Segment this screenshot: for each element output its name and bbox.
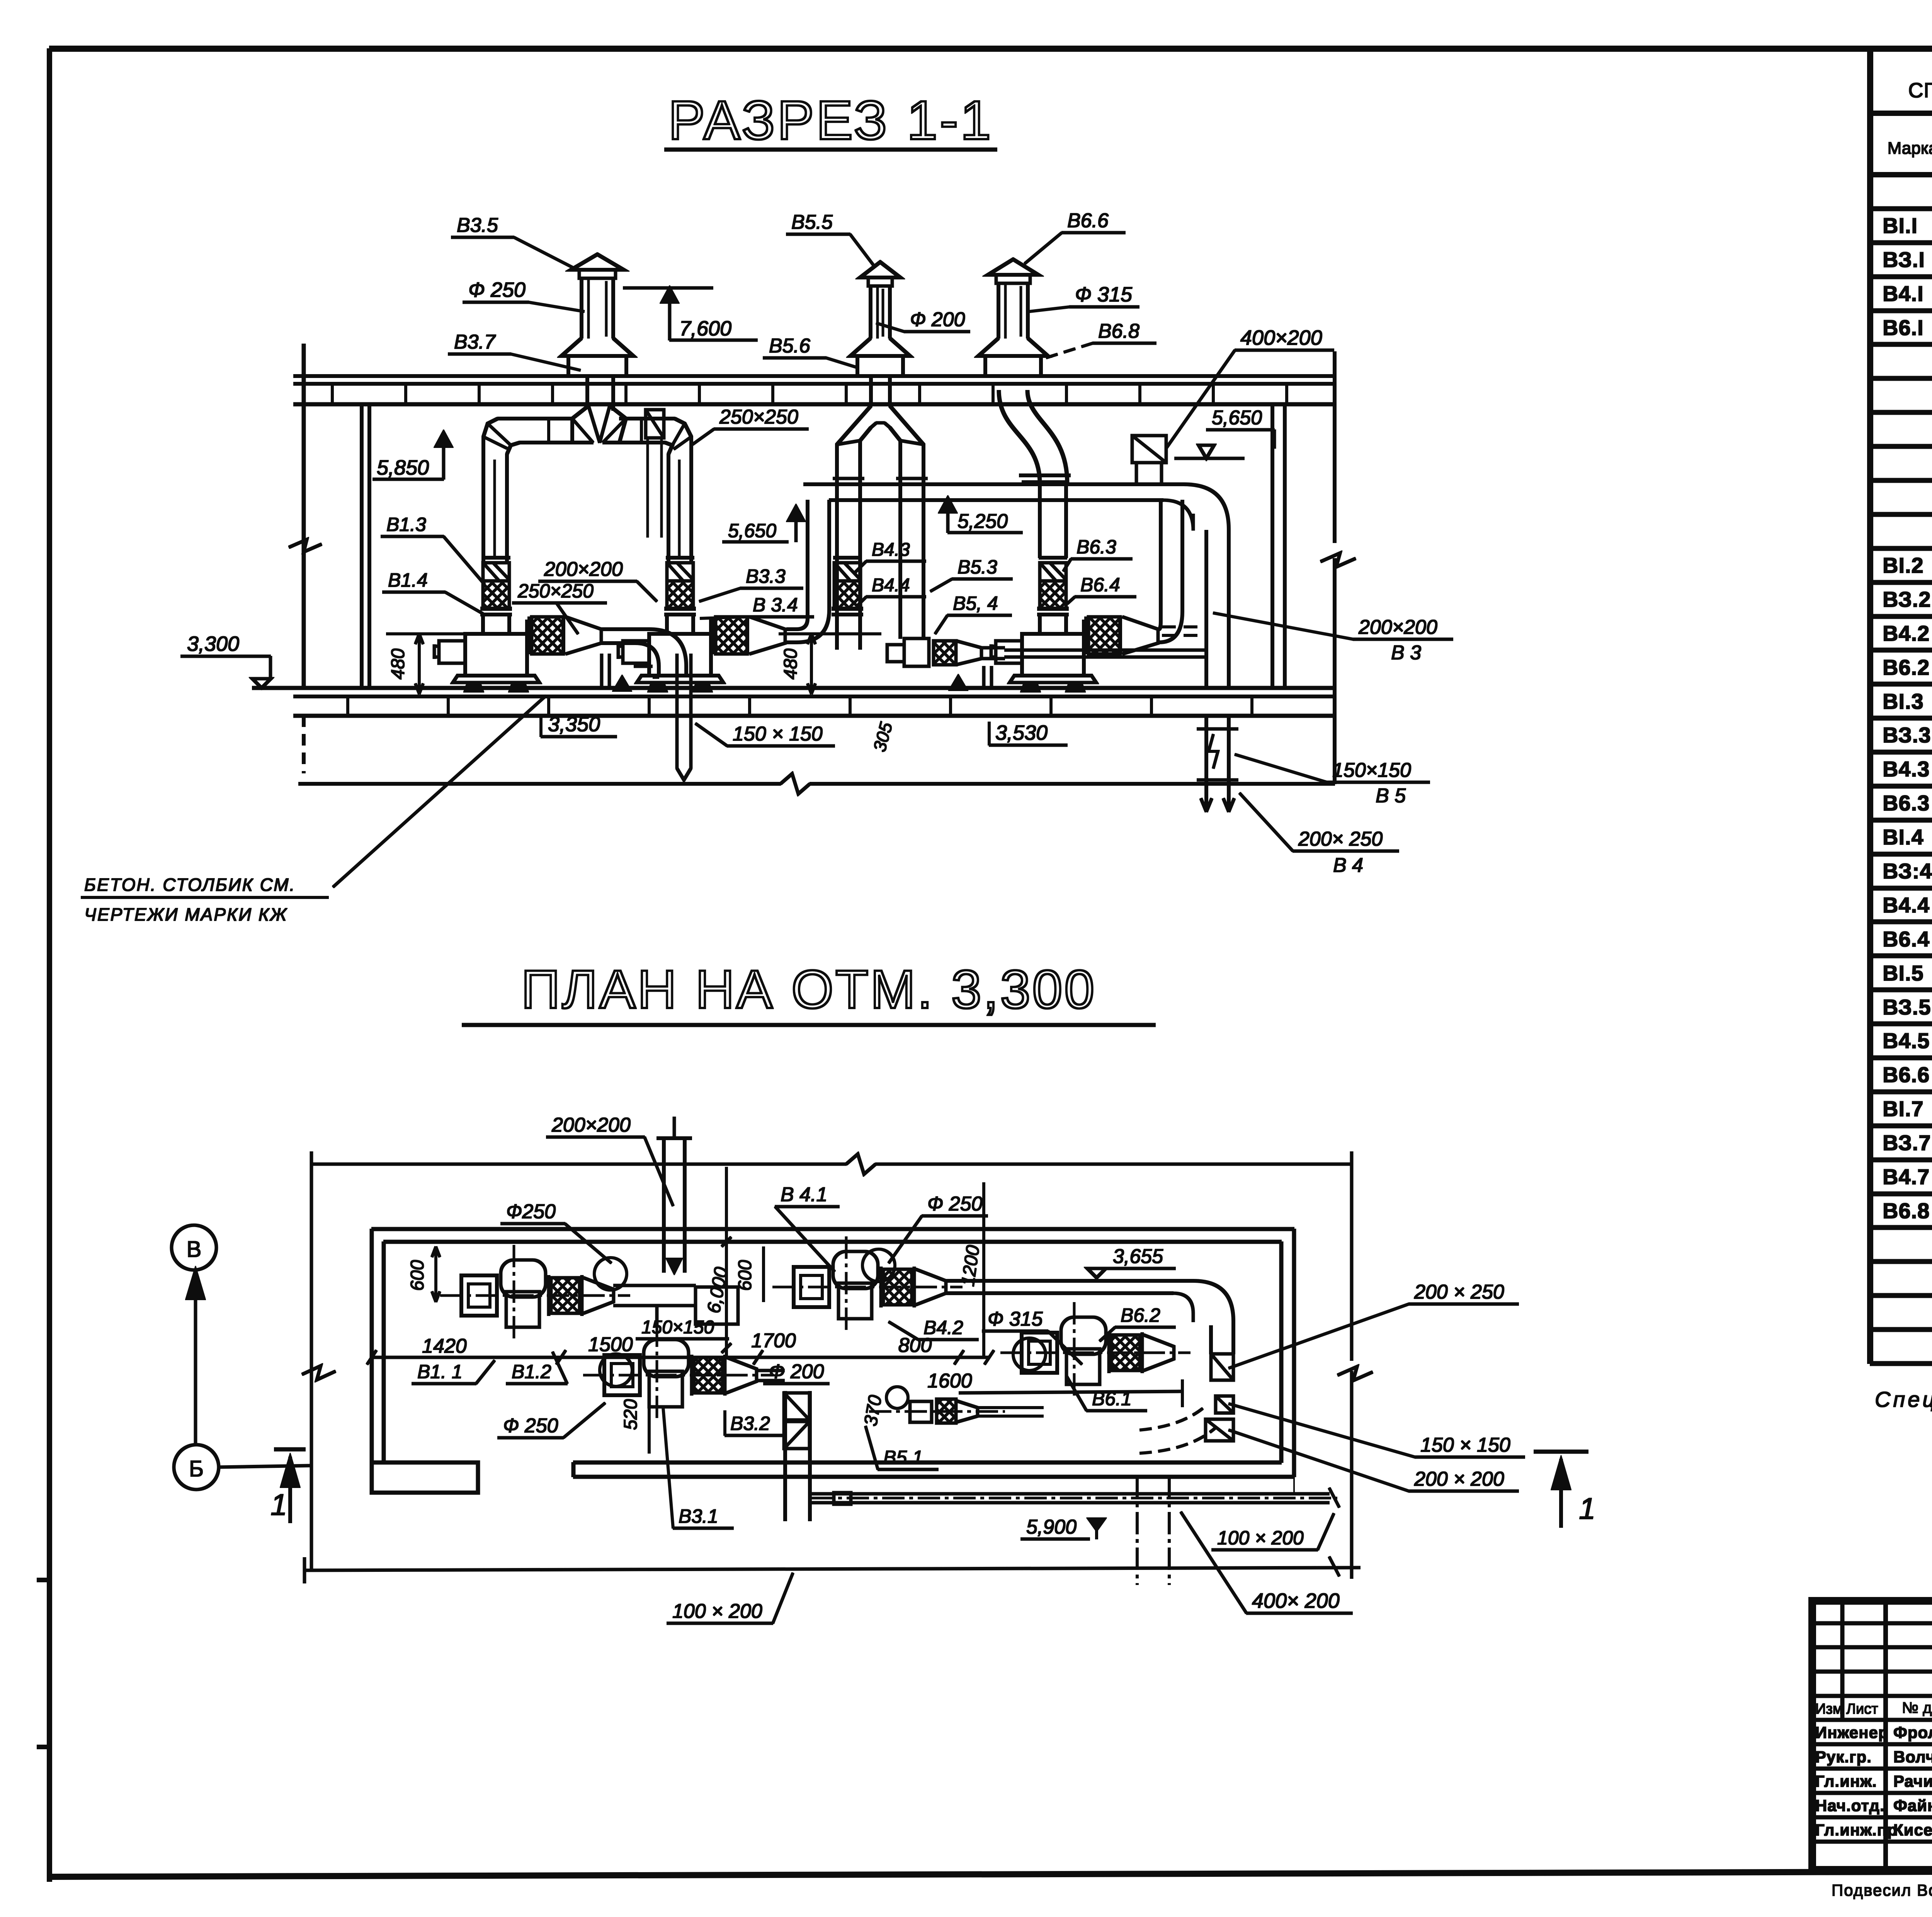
svg-text:200 × 200: 200 × 200: [1414, 1468, 1504, 1490]
svg-text:250×250: 250×250: [719, 406, 798, 428]
svg-text:В6.8: В6.8: [1883, 1199, 1930, 1223]
duct from B5 to right: [978, 1406, 1043, 1409]
support under B5 duct: [983, 666, 985, 688]
plan top dimension line: [311, 1163, 846, 1166]
svg-text:В4.3: В4.3: [872, 540, 910, 560]
plan fan unit B1 (B1.1/B1.2): [461, 1275, 497, 1316]
right wall: [1271, 404, 1274, 688]
left wall break mark: [289, 540, 321, 552]
drop break squiggle: [1209, 734, 1218, 768]
svg-text:В1.2: В1.2: [512, 1361, 551, 1382]
ground line break mark: [781, 774, 810, 794]
plan right dimension line: [1350, 1156, 1353, 1360]
vertical dim line 6000: [725, 1167, 728, 1357]
svg-text:600: 600: [407, 1260, 428, 1291]
svg-text:7,600: 7,600: [679, 317, 731, 340]
svg-text:В3.2: В3.2: [730, 1413, 770, 1434]
plan dim 1600: [959, 1391, 1182, 1393]
svg-text:Файн-Гирш: Файн-Гирш: [1893, 1796, 1932, 1815]
flex insert B1.3 + diaphragm B1.4: [482, 556, 510, 559]
svg-text:Ф 250: Ф 250: [468, 278, 526, 301]
duct 250x250 from B1 cone: [601, 628, 649, 631]
svg-text:ВЗ.7: ВЗ.7: [1883, 1130, 1931, 1155]
B4 drop below floor: [1205, 716, 1208, 812]
svg-text:В6.2: В6.2: [1883, 655, 1930, 679]
svg-text:5,900: 5,900: [1026, 1516, 1077, 1538]
thin duct from B5 to right wall riser: [1005, 649, 1206, 652]
frame top border: [49, 46, 1932, 51]
svg-text:В1. 1: В1. 1: [417, 1361, 463, 1382]
loop right leg: [667, 454, 670, 563]
right edge break mark: [1321, 553, 1355, 567]
svg-text:В 3.4: В 3.4: [753, 594, 798, 616]
svg-text:В 4: В 4: [1333, 854, 1363, 877]
svg-text:ВЗ:4: ВЗ:4: [1883, 859, 1932, 883]
svg-text:ПЛАН НА ОТМ. 3,300: ПЛАН НА ОТМ. 3,300: [521, 959, 1096, 1020]
svg-text:В: В: [187, 1237, 202, 1262]
svg-text:Волчкина: Волчкина: [1893, 1748, 1932, 1766]
svg-text:В4.4: В4.4: [1883, 893, 1930, 917]
svg-text:В4.3: В4.3: [1883, 757, 1930, 781]
axis line B-V: [194, 1270, 197, 1445]
section title underline: [665, 148, 997, 152]
plan fan unit B6 (B6.1/B6.2): [1022, 1333, 1057, 1373]
B4 discharge duct to right: [946, 1279, 1193, 1282]
svg-text:150×150: 150×150: [641, 1317, 714, 1338]
svg-text:В 5: В 5: [1376, 785, 1406, 807]
top right elbow down: [1193, 1281, 1233, 1354]
duct through bottom wall x2060: [784, 1391, 787, 1521]
svg-text:3,655: 3,655: [1113, 1245, 1163, 1268]
bottom-left wall pier: [372, 1462, 478, 1493]
dash verticals below wall 400x200: [1136, 1477, 1138, 1585]
plan outer walls: [372, 1227, 1294, 1231]
elbow down to floor duct B1: [649, 629, 686, 677]
frame bottom border: [49, 1870, 1932, 1877]
fan unit B6.1: [1038, 615, 1041, 634]
plan dimension row 1420/1500/1700/800: [372, 1356, 989, 1359]
axis line from B circle: [219, 1466, 311, 1467]
svg-text:В 4.1: В 4.1: [781, 1183, 827, 1206]
svg-text:BI.3: BI.3: [1883, 689, 1924, 713]
Y branch under stack2: [869, 376, 872, 406]
plan title underline: [462, 1023, 1155, 1027]
wall box 200x200: [1206, 1419, 1233, 1441]
section cut mark 1 right: [1534, 1450, 1588, 1454]
svg-text:3,530: 3,530: [995, 721, 1048, 744]
svg-text:В4.7: В4.7: [1883, 1165, 1930, 1189]
duct through roof stack1: [586, 376, 589, 408]
svg-text:3,300: 3,300: [187, 632, 239, 655]
svg-text:600: 600: [735, 1260, 755, 1291]
svg-text:В6.8: В6.8: [1098, 320, 1139, 342]
right edge line: [1333, 352, 1336, 543]
run joint tick 2: [640, 419, 643, 443]
svg-text:В1.4: В1.4: [388, 569, 428, 591]
fan unit B5.1 small: [904, 638, 929, 666]
svg-text:Нач.отд.: Нач.отд.: [1815, 1796, 1885, 1815]
fold tick left 1: [37, 1578, 50, 1582]
svg-text:В6.I: В6.I: [1883, 315, 1924, 340]
vent stack B5.5 d200: [860, 262, 900, 278]
svg-text:Фролова: Фролова: [1893, 1723, 1932, 1742]
svg-text:В4.I: В4.I: [1883, 281, 1924, 306]
long duct below bottom wall: [811, 1493, 1329, 1495]
svg-text:В3.7: В3.7: [454, 331, 496, 353]
svg-text:480: 480: [781, 649, 801, 679]
svg-text:Рачицкий: Рачицкий: [1893, 1772, 1932, 1790]
svg-text:Ф250: Ф250: [506, 1200, 556, 1223]
fold tick left 2: [37, 1745, 50, 1749]
svg-text:150 × 150: 150 × 150: [733, 723, 823, 745]
svg-text:В5.3: В5.3: [957, 556, 997, 578]
fan unit B1.1: [481, 615, 485, 634]
duct loop top run 200x200: [498, 417, 572, 420]
leader from concrete note to floor: [333, 696, 546, 887]
bottom wall band: [573, 1461, 1281, 1464]
svg-text:400×200: 400×200: [1240, 326, 1322, 349]
left wall: [302, 344, 306, 688]
duct from B1 cone to 150x150 tee: [614, 1284, 696, 1287]
svg-text:В4.2: В4.2: [1883, 621, 1930, 645]
wall box 150x150: [1216, 1396, 1233, 1413]
svg-text:1700: 1700: [751, 1330, 796, 1352]
flex insert B4.3 + diaphragm B4.4: [833, 556, 861, 559]
elevation 7.600: [623, 287, 713, 289]
run joint tick: [548, 419, 550, 443]
svg-text:Изм: Изм: [1815, 1701, 1843, 1717]
svg-text:В5.5: В5.5: [791, 211, 833, 233]
specification table grid: [1867, 49, 1873, 1364]
loop top-right corner chamfer: [675, 419, 691, 454]
left wall dashed below floor: [302, 716, 305, 773]
svg-text:В6.6: В6.6: [1067, 209, 1109, 232]
damper 400x200 on run: [1132, 436, 1166, 463]
svg-text:В4.2: В4.2: [923, 1317, 963, 1338]
svg-text:В6.3: В6.3: [1883, 791, 1930, 815]
dashed duct stubs at right: [1162, 626, 1205, 628]
svg-text:1600: 1600: [927, 1370, 972, 1392]
title block: [1812, 1601, 1932, 1870]
svg-text:ВЗ.2: ВЗ.2: [1883, 587, 1931, 611]
svg-text:200×200: 200×200: [551, 1114, 631, 1136]
svg-text:1500: 1500: [588, 1333, 633, 1356]
svg-text:ЧЕРТЕЖИ МАРКИ КЖ: ЧЕРТЕЖИ МАРКИ КЖ: [84, 904, 287, 924]
svg-text:Марка: Марка: [1888, 139, 1932, 158]
svg-text:Ф 250: Ф 250: [503, 1415, 558, 1437]
section cut mark 1 left: [274, 1448, 305, 1451]
mitre Y under stack1: [572, 406, 593, 443]
plan fan unit B3 (B3.1/B3.2): [604, 1355, 640, 1395]
svg-text:200×200: 200×200: [1358, 616, 1437, 638]
svg-text:BI.7: BI.7: [1883, 1096, 1924, 1121]
stack3 S-bend: [999, 390, 1040, 483]
svg-text:5,250: 5,250: [957, 510, 1008, 533]
svg-text:Киселева: Киселева: [1893, 1821, 1932, 1839]
floor brick joints: [347, 696, 349, 716]
svg-text:В4.4: В4.4: [872, 575, 910, 596]
vertical dim line 1200 extended: [983, 1183, 985, 1357]
frame left border: [47, 49, 52, 1881]
svg-text:В3.5: В3.5: [457, 214, 498, 237]
svg-text:200×200: 200×200: [544, 558, 623, 581]
svg-text:150 × 150: 150 × 150: [1420, 1434, 1510, 1456]
svg-text:480: 480: [388, 649, 408, 679]
svg-text:РАЗРЕЗ 1-1: РАЗРЕЗ 1-1: [668, 90, 993, 151]
svg-text:1: 1: [1579, 1491, 1595, 1525]
svg-text:Ф 200: Ф 200: [769, 1360, 824, 1383]
floor slab: [252, 686, 1335, 690]
support column under 250x250 duct: [600, 654, 603, 688]
svg-text:В6.4: В6.4: [1080, 574, 1120, 596]
svg-text:В6.3: В6.3: [1077, 536, 1116, 558]
svg-text:В1.3: В1.3: [386, 514, 426, 535]
fan unit B3.1: [665, 615, 668, 634]
soft connector + cone B6.2: [1082, 620, 1085, 653]
svg-text:BI.2: BI.2: [1883, 553, 1924, 577]
elevation 5.850: [436, 432, 451, 446]
150x150 drop through floor: [676, 654, 679, 768]
stack2 legs down: [835, 478, 838, 649]
elevation 5.250: [940, 498, 956, 512]
ground line below floor: [299, 782, 781, 785]
svg-text:В5.1: В5.1: [883, 1447, 923, 1468]
svg-text:В6.2: В6.2: [1121, 1304, 1160, 1326]
svg-text:150×150: 150×150: [1332, 759, 1411, 781]
svg-text:ВЗ.5: ВЗ.5: [1883, 995, 1931, 1019]
svg-text:3,350: 3,350: [548, 713, 600, 736]
soft connector + cone B3.2: [709, 620, 713, 653]
loop left leg: [482, 454, 485, 563]
axis arrow up: [187, 1270, 204, 1299]
loop top-left corner chamfer: [483, 419, 498, 454]
circled axis letters: [172, 1225, 216, 1270]
plan fan unit B5 small: [910, 1401, 932, 1422]
svg-text:100 × 200: 100 × 200: [672, 1600, 762, 1622]
svg-text:1: 1: [270, 1488, 287, 1522]
svg-text:Инженер: Инженер: [1815, 1723, 1889, 1742]
svg-text:В4.5: В4.5: [1883, 1028, 1930, 1053]
svg-text:В5.6: В5.6: [769, 335, 810, 357]
svg-text:Ф 250: Ф 250: [927, 1193, 983, 1215]
svg-text:Гл.инж.: Гл.инж.: [1815, 1772, 1877, 1790]
svg-text:200 × 250: 200 × 250: [1414, 1281, 1504, 1303]
svg-text:В 3: В 3: [1391, 642, 1421, 664]
200x200 duct dropping into plan top: [662, 1138, 665, 1272]
svg-text:520: 520: [621, 1399, 641, 1430]
dashed curves to boxes: [1140, 1406, 1206, 1430]
svg-text:Рук.гр.: Рук.гр.: [1815, 1748, 1872, 1766]
svg-text:5,850: 5,850: [377, 456, 429, 479]
vent stack B6.6 d315: [988, 259, 1038, 275]
svg-text:В3.1: В3.1: [679, 1505, 718, 1527]
stack3 connector down to B6 riser: [1038, 482, 1041, 558]
svg-text:СПЕЦИФИКАЦИЯ ОТОПИТЕЛЬНО-ВЕНТИ: СПЕЦИФИКАЦИЯ ОТОПИТЕЛЬНО-ВЕНТИЛЯЦИОННЫХ …: [1908, 79, 1932, 102]
svg-text:Гл.инж.пр: Гл.инж.пр: [1815, 1821, 1898, 1839]
svg-text:ВЗ.3: ВЗ.3: [1883, 723, 1931, 747]
damper box on loop: [646, 410, 664, 438]
svg-text:200× 250: 200× 250: [1298, 828, 1383, 850]
svg-text:В5, 4: В5, 4: [953, 592, 998, 614]
svg-text:Подвесил Волчкина: Подвесил Волчкина: [1832, 1881, 1932, 1899]
svg-text:400× 200: 400× 200: [1252, 1589, 1340, 1612]
B6 discharge elbow up: [1159, 500, 1161, 629]
B3 discharge duct to wall box: [757, 1369, 784, 1372]
svg-text:В6.1: В6.1: [1092, 1388, 1132, 1410]
roof slab: [294, 375, 1335, 378]
horizontal run 5.250 level: [804, 483, 1184, 486]
svg-text:Ф 315: Ф 315: [988, 1308, 1043, 1330]
svg-text:1420: 1420: [422, 1335, 467, 1357]
flex insert B3.3 + diaphragm B3.4: [666, 556, 694, 559]
svg-text:Б: Б: [189, 1456, 204, 1481]
plan bottom dimension line: [304, 1568, 1360, 1570]
run right elbow down to B4 drop: [1184, 484, 1229, 688]
svg-text:5,650: 5,650: [728, 520, 776, 541]
plan fan unit B4 (B4.1/B4.2): [794, 1267, 829, 1307]
wall box 200x250: [1211, 1354, 1233, 1380]
svg-text:ВЗ.I: ВЗ.I: [1883, 247, 1925, 272]
soft connector + cone B1.2: [526, 620, 529, 653]
flex insert B6.3 + diaphragm B6.4: [1039, 556, 1067, 559]
svg-text:100 × 200: 100 × 200: [1217, 1527, 1304, 1549]
low duct to B3: [653, 676, 659, 679]
svg-text:Лист: Лист: [1846, 1701, 1878, 1717]
svg-text:Спецификацию на установку В: Спецификацию на установку В5 см. чертеж …: [1875, 1387, 1932, 1411]
svg-text:В6.4: В6.4: [1883, 927, 1930, 951]
svg-text:Ф 315: Ф 315: [1075, 283, 1133, 306]
svg-text:В3.3: В3.3: [746, 565, 786, 587]
B3 discharge duct + elbow up to run: [787, 500, 808, 629]
svg-text:5,650: 5,650: [1212, 407, 1262, 429]
svg-text:БЕТОН. СТОЛБИК СМ.: БЕТОН. СТОЛБИК СМ.: [84, 875, 296, 895]
svg-text:250×250: 250×250: [517, 580, 594, 602]
svg-text:Ф 200: Ф 200: [910, 308, 965, 331]
vent stack B3.5 d250: [571, 254, 624, 270]
svg-text:BI.5: BI.5: [1883, 961, 1924, 985]
plan left dimension line: [310, 1164, 313, 1570]
svg-text:BI.I: BI.I: [1883, 213, 1918, 238]
roof brick joints: [331, 384, 333, 404]
svg-text:В6.6: В6.6: [1883, 1062, 1930, 1087]
svg-text:№ докум.: № докум.: [1902, 1699, 1932, 1716]
svg-text:BI.4: BI.4: [1883, 825, 1924, 849]
